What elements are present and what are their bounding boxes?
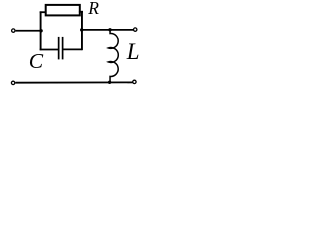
input terminal (bottom-left) [11, 81, 14, 84]
wire capacitor left [40, 49, 59, 51]
resistor R1 body [46, 5, 80, 16]
output terminal (bottom-right) [133, 80, 136, 83]
wire input to node A [16, 30, 42, 32]
inductor L1 coil [108, 30, 118, 82]
node B junction dot [80, 28, 83, 31]
wire right stub from resistor [79, 11, 83, 13]
input terminal (top-left) [12, 29, 15, 32]
output terminal (top-right) [134, 28, 137, 31]
node A junction dot [39, 29, 42, 32]
wire node B to output terminal [82, 29, 133, 31]
svg-text:L: L [126, 39, 140, 64]
wire capacitor right [63, 48, 82, 50]
capacitor C1 right plate [62, 37, 64, 60]
wire right riser [81, 11, 83, 50]
wire left riser [40, 11, 42, 50]
node D junction dot (inductor bottom) [108, 81, 111, 84]
capacitor C1 left plate [58, 37, 60, 60]
svg-text:R: R [87, 0, 99, 18]
svg-text:C: C [29, 49, 44, 73]
bottom wire [15, 81, 132, 83]
wire left stub to resistor [40, 11, 47, 13]
node C junction dot (inductor top) [108, 28, 111, 31]
